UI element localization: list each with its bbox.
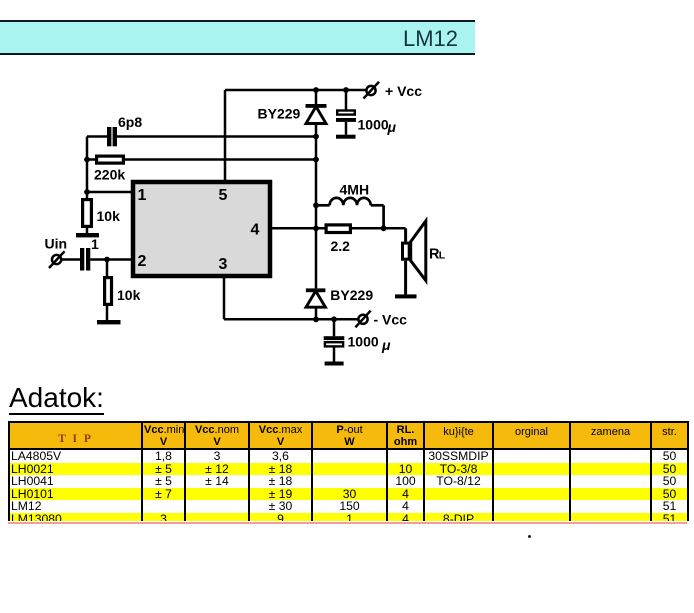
wire R4 to speaker: [352, 227, 406, 230]
svg-text:2.2: 2.2: [331, 238, 351, 254]
node: input junction: [104, 257, 110, 263]
wire right bus vertical (D1 to D2): [315, 137, 318, 289]
data table: [8, 421, 689, 521]
svg-text:Uin: Uin: [45, 236, 68, 252]
node bus/6p8: [313, 134, 319, 140]
node bus/L1: [313, 202, 319, 208]
resistor R1 220k: [87, 156, 123, 163]
node bus/pin4: [313, 225, 319, 231]
ground (under C4): [325, 362, 344, 366]
svg-text:BY229: BY229: [258, 106, 301, 122]
label + Vcc: [385, 83, 422, 99]
svg-text:6p8: 6p8: [118, 114, 142, 130]
capacitor C1 (input, value 1): [80, 248, 90, 271]
svg-text:1: 1: [138, 187, 147, 204]
node at 220k tap: [84, 157, 90, 163]
wire pin 1: [87, 191, 131, 194]
ground (under R3): [76, 233, 99, 237]
svg-text:1: 1: [91, 236, 99, 252]
resistor R2 10k (lower): [105, 260, 112, 321]
node at pin1 tap: [84, 189, 90, 195]
wire left bus vertical: [86, 137, 89, 193]
inductor L1 4MH: [316, 198, 384, 228]
svg-text:BY229: BY229: [330, 287, 373, 303]
svg-text:220k: 220k: [94, 167, 125, 183]
svg-text:10k: 10k: [117, 287, 141, 303]
label Uin: [45, 236, 68, 252]
node bus/220k: [313, 157, 319, 163]
connector -Vcc: [355, 311, 370, 328]
wire +Vcc rail: [225, 89, 366, 92]
capacitor C3 1000u: [336, 90, 356, 135]
ground (under speaker): [395, 294, 417, 298]
node C3 at rail: [343, 87, 349, 93]
wire pin 3: [223, 276, 226, 319]
value label 1000u: [358, 117, 397, 136]
svg-text:4MH: 4MH: [340, 182, 370, 198]
value label 220k: [94, 167, 125, 183]
op-amp U1 LM12: [133, 182, 270, 276]
ground (under C3): [336, 135, 356, 139]
svg-text:μ: μ: [387, 119, 397, 135]
svg-text:1000: 1000: [348, 334, 379, 350]
wire C1 to pin 2: [90, 258, 131, 261]
value label 2.2: [331, 238, 351, 254]
wire pin 5 to +rail: [224, 90, 227, 182]
value label 6p8: [118, 114, 142, 130]
wire C2 to bus: [117, 135, 316, 138]
connector +Vcc: [364, 82, 380, 99]
label RL: [429, 246, 446, 262]
wire pin 4: [270, 227, 325, 230]
value label 10k: [97, 208, 121, 224]
svg-text:10k: 10k: [97, 208, 121, 224]
value label 1000u: [348, 334, 392, 354]
svg-text:μ: μ: [381, 337, 391, 353]
connector J1 Uin: [49, 251, 65, 268]
diode D1 BY229: [306, 90, 327, 137]
svg-text:4: 4: [251, 222, 260, 239]
value label 10k: [117, 287, 141, 303]
svg-text:5: 5: [219, 187, 228, 204]
wire Uin to C1: [61, 258, 80, 261]
resistor R4 2.2: [326, 225, 350, 233]
node D1 at rail: [313, 87, 319, 93]
diode D2 BY229: [306, 288, 326, 319]
label - Vcc: [374, 312, 408, 328]
label BY229: [258, 106, 301, 122]
title banner: [0, 20, 475, 55]
wire R1 to bus: [125, 158, 316, 161]
resistor R3 10k (upper): [83, 192, 92, 233]
label BY229: [330, 287, 373, 303]
svg-text:2: 2: [138, 253, 147, 270]
node D2 at rail: [313, 316, 319, 322]
ground (under R2): [97, 320, 121, 324]
node C4 at rail: [331, 316, 337, 322]
wire -Vcc rail: [224, 318, 358, 321]
capacitor C4 1000u: [324, 319, 345, 361]
svg-text:- Vcc: - Vcc: [374, 312, 408, 328]
node L1/R4 junction: [381, 225, 387, 231]
Adatok heading: [9, 382, 104, 414]
capacitor C2 6p8: [87, 127, 117, 146]
svg-text:3: 3: [219, 256, 228, 273]
pink cut line: [8, 522, 687, 524]
speaker RL: [403, 221, 426, 294]
svg-text:1000: 1000: [358, 117, 389, 133]
value label 4MH: [340, 182, 370, 198]
svg-text:+ Vcc: + Vcc: [385, 83, 422, 99]
stray dot: [528, 535, 531, 538]
value label 1: [91, 236, 99, 252]
svg-text:L: L: [439, 249, 446, 261]
